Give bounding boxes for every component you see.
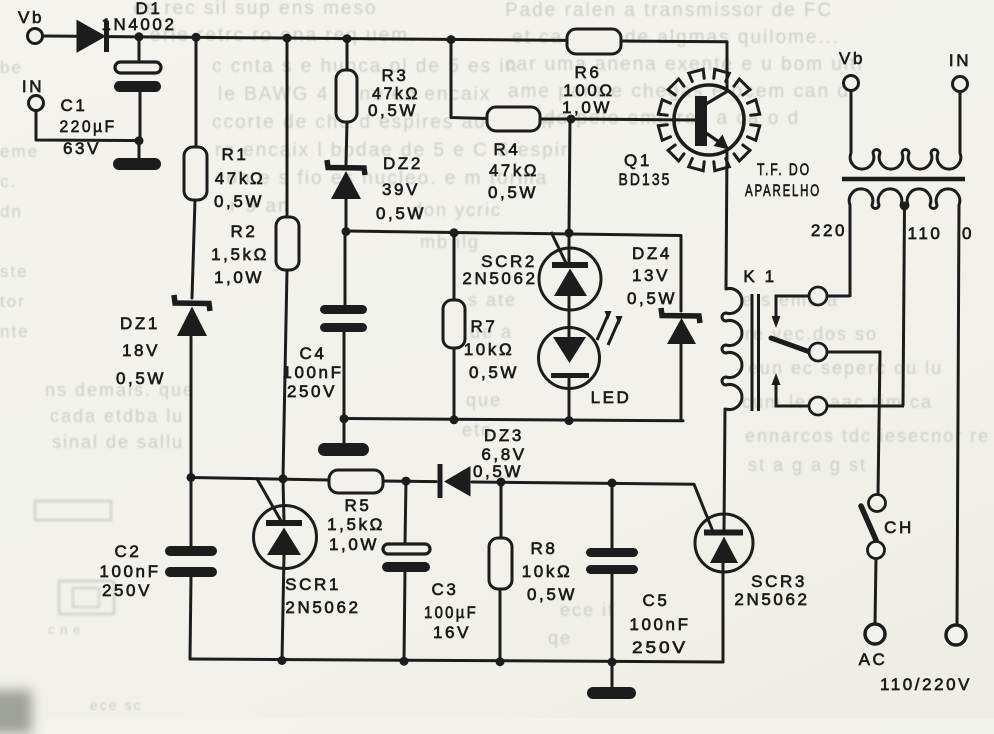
svg-text:R2: R2 bbox=[231, 222, 258, 241]
wire mid rail DZ2 to DZ4 bbox=[346, 231, 681, 311]
svg-text:SCR1: SCR1 bbox=[285, 575, 341, 594]
svg-text:R6: R6 bbox=[575, 63, 602, 82]
svg-text:R5: R5 bbox=[345, 496, 372, 515]
svg-text:DZ2: DZ2 bbox=[383, 154, 423, 173]
svg-text:1,0W: 1,0W bbox=[329, 535, 379, 554]
relay armature bbox=[771, 338, 810, 352]
svg-text:18V: 18V bbox=[122, 341, 160, 360]
svg-text:0,5W: 0,5W bbox=[376, 204, 426, 223]
svg-text:16V: 16V bbox=[433, 623, 471, 642]
wire SCR3 cathode bbox=[722, 563, 725, 662]
node C5 bottom rail / ground bbox=[608, 658, 617, 667]
wire CH to AC bbox=[875, 558, 876, 624]
wire R2 column bbox=[283, 38, 287, 521]
node SCR1 bottom rail bbox=[278, 656, 287, 665]
svg-text:47kΩ: 47kΩ bbox=[489, 161, 539, 180]
svg-text:250V: 250V bbox=[287, 382, 337, 401]
svg-text:0,5W: 0,5W bbox=[473, 462, 523, 481]
wire gate rail left segment bbox=[191, 478, 329, 481]
svg-text:10kΩ: 10kΩ bbox=[464, 340, 515, 359]
zener DZ2 bbox=[327, 160, 365, 199]
node C1 top bbox=[135, 32, 144, 41]
node SCR2 anode bbox=[565, 229, 574, 238]
wire C5 column bbox=[611, 483, 614, 688]
svg-text:C2: C2 bbox=[115, 542, 142, 561]
svg-text:Q1: Q1 bbox=[624, 151, 652, 170]
resistor R7 bbox=[443, 300, 465, 348]
node SCR1 anode bbox=[279, 474, 288, 483]
svg-text:T.F. DO: T.F. DO bbox=[757, 160, 811, 179]
svg-text:IN: IN bbox=[949, 51, 971, 70]
capacitor C4 bbox=[320, 305, 367, 332]
capacitor C5 bbox=[586, 548, 638, 574]
node DZ1 gate rail bbox=[187, 473, 196, 482]
svg-text:220: 220 bbox=[811, 221, 847, 240]
ground below C4 bbox=[318, 443, 369, 456]
wire R8 column bbox=[500, 482, 501, 661]
svg-text:R7: R7 bbox=[471, 317, 498, 336]
zener DZ3 (horizontal) bbox=[440, 464, 471, 498]
svg-text:2N5062: 2N5062 bbox=[285, 598, 360, 617]
svg-text:2N5062: 2N5062 bbox=[734, 590, 809, 609]
node C3 top bbox=[402, 477, 411, 486]
wire top rail (R6 to collector corner) bbox=[621, 41, 727, 91]
zener DZ1 bbox=[174, 295, 210, 336]
wire R7 column bbox=[453, 233, 456, 420]
wire lower box rail C4-R7-LED-DZ4 bbox=[344, 419, 683, 421]
svg-text:1,0W: 1,0W bbox=[562, 98, 612, 117]
svg-text:0,5W: 0,5W bbox=[368, 101, 418, 120]
wire C3 column bbox=[404, 481, 406, 661]
wire gate rail DZ3 to SCR3 gate bbox=[472, 482, 712, 529]
svg-text:APARELHO: APARELHO bbox=[745, 181, 821, 200]
capacitor C2 bbox=[165, 546, 217, 577]
node R7 top bbox=[450, 228, 459, 237]
svg-text:Vb: Vb bbox=[18, 8, 44, 27]
svg-text:1N4002: 1N4002 bbox=[102, 15, 177, 34]
svg-text:0,5W: 0,5W bbox=[488, 183, 538, 202]
node R8 top bbox=[497, 478, 506, 487]
relay K1 core bbox=[752, 294, 759, 411]
svg-text:110: 110 bbox=[908, 224, 943, 243]
svg-text:AC: AC bbox=[859, 650, 888, 669]
wire IN lead bbox=[36, 111, 136, 141]
wire 110 tap down bbox=[903, 208, 905, 406]
svg-text:250V: 250V bbox=[102, 581, 152, 600]
ground below C5 node bbox=[587, 687, 636, 699]
wire SCR1 cathode bbox=[282, 555, 284, 661]
terminal AC right bbox=[946, 625, 966, 645]
svg-text:IN: IN bbox=[22, 77, 44, 96]
svg-text:0,5W: 0,5W bbox=[116, 369, 166, 388]
node R1 top bbox=[192, 33, 201, 42]
svg-text:DZ3: DZ3 bbox=[484, 426, 524, 445]
resistor R1 bbox=[184, 147, 207, 200]
transformer core bbox=[842, 177, 965, 182]
svg-text:100nF: 100nF bbox=[282, 363, 343, 382]
svg-text:0: 0 bbox=[962, 224, 974, 243]
faint reverse-side figure fragments bottom-left bbox=[34, 500, 112, 521]
diode D1 bbox=[77, 21, 107, 53]
node Q1 base / R4 bbox=[567, 115, 576, 124]
svg-text:C4: C4 bbox=[300, 344, 327, 363]
resistor R3 bbox=[336, 70, 357, 122]
wire gate rail R5-DZ3 segment bbox=[383, 480, 436, 484]
wire DZ4 bottom bbox=[680, 344, 683, 421]
relay contact common (middle) bbox=[809, 343, 880, 495]
wire bottom rail bbox=[190, 659, 723, 662]
resistor R2 bbox=[276, 217, 299, 270]
svg-text:39V: 39V bbox=[382, 180, 420, 199]
svg-text:0,5W: 0,5W bbox=[627, 289, 677, 308]
resistor R6 bbox=[567, 29, 621, 54]
svg-text:1,5kΩ: 1,5kΩ bbox=[211, 245, 269, 264]
svg-text:63V: 63V bbox=[63, 139, 101, 158]
relay contact NO (bottom) bbox=[772, 373, 905, 415]
svg-text:250V: 250V bbox=[632, 638, 688, 657]
svg-text:Vb: Vb bbox=[839, 49, 865, 68]
svg-text:1,5kΩ: 1,5kΩ bbox=[327, 515, 385, 534]
wire SCR2 gate bbox=[551, 232, 566, 263]
svg-text:LED: LED bbox=[591, 388, 632, 407]
svg-text:SCR3: SCR3 bbox=[751, 572, 807, 591]
node R4 top bbox=[447, 35, 456, 44]
node C3 bottom rail bbox=[400, 657, 409, 666]
resistor R5 bbox=[329, 470, 383, 493]
wire top rail left (Vb to D1) bbox=[43, 35, 77, 38]
svg-text:100nF: 100nF bbox=[99, 562, 160, 581]
wire C2 column bbox=[190, 478, 191, 660]
node C4 bottom bbox=[340, 414, 349, 423]
switch CH bbox=[861, 495, 886, 625]
transistor Q1 bbox=[674, 85, 744, 155]
node C5 top bbox=[608, 479, 617, 488]
LED light arrows bbox=[597, 315, 619, 345]
capacitor C3 bbox=[382, 544, 430, 572]
node transformer 110 tap bbox=[900, 202, 909, 211]
svg-text:100µF: 100µF bbox=[424, 603, 478, 622]
wire SCR2-LED column bbox=[568, 233, 571, 421]
svg-text:CH: CH bbox=[884, 518, 914, 537]
wire R1/DZ1 column bbox=[191, 37, 196, 477]
svg-text:K 1: K 1 bbox=[743, 267, 776, 286]
svg-text:0,5W: 0,5W bbox=[469, 363, 519, 382]
SCR2 bbox=[539, 232, 601, 310]
terminal Vb right bbox=[844, 76, 859, 91]
svg-text:10kΩ: 10kΩ bbox=[522, 562, 573, 581]
svg-text:0,5W: 0,5W bbox=[527, 585, 577, 604]
svg-text:R8: R8 bbox=[531, 539, 558, 558]
SCR3 bbox=[695, 514, 753, 572]
node LED cathode bbox=[565, 416, 574, 425]
Q1 heatsink fins bbox=[658, 69, 759, 170]
svg-text:DZ4: DZ4 bbox=[632, 244, 672, 263]
wire R4 branch bbox=[451, 40, 571, 119]
wire Q1 base bbox=[571, 119, 695, 120]
wire top rail (D1 to R6) bbox=[110, 37, 567, 41]
svg-text:100nF: 100nF bbox=[629, 615, 690, 634]
SCR1 bbox=[254, 506, 317, 569]
transformer secondary winding bbox=[850, 91, 961, 169]
wire SCR2 anode branch bbox=[569, 119, 570, 232]
capacitor C1 bbox=[114, 62, 161, 92]
svg-text:DZ1: DZ1 bbox=[120, 314, 160, 333]
node R2 top bbox=[283, 34, 292, 43]
svg-text:47kΩ: 47kΩ bbox=[215, 169, 266, 188]
wire C1 column bbox=[139, 37, 140, 158]
svg-text:110/220V: 110/220V bbox=[880, 675, 972, 694]
node R8 bottom rail bbox=[496, 657, 505, 666]
svg-text:C5: C5 bbox=[643, 591, 670, 610]
wire R3/DZ2/C4 column bbox=[344, 39, 347, 444]
svg-text:C1: C1 bbox=[61, 96, 88, 115]
resistor R4 bbox=[487, 107, 540, 131]
relay contact NC (top) bbox=[772, 287, 828, 328]
node R3 top bbox=[343, 34, 352, 43]
svg-text:13V: 13V bbox=[632, 266, 670, 285]
wire relay coil to SCR3 anode bbox=[724, 409, 725, 531]
resistor R8 bbox=[489, 538, 512, 589]
svg-text:R3: R3 bbox=[382, 66, 409, 85]
relay K1 coil bbox=[722, 289, 742, 410]
svg-text:R1: R1 bbox=[222, 145, 249, 164]
LED bbox=[539, 311, 623, 389]
node DZ2 mid rail bbox=[342, 227, 351, 236]
svg-text:220µF: 220µF bbox=[60, 117, 117, 136]
transformer primary winding bbox=[849, 189, 960, 625]
terminal AC left bbox=[865, 624, 885, 644]
zener DZ4 bbox=[661, 308, 700, 344]
terminal IN right bbox=[953, 77, 968, 92]
svg-text:BD135: BD135 bbox=[619, 170, 672, 189]
svg-text:2N5062: 2N5062 bbox=[462, 269, 537, 288]
wire SCR1 gate bbox=[257, 479, 281, 521]
terminal IN left bbox=[29, 96, 44, 111]
node C1 bottom / IN junction bbox=[135, 136, 144, 145]
svg-text:R4: R4 bbox=[494, 140, 521, 159]
node R7 bottom bbox=[450, 415, 459, 424]
ground below C1 bbox=[113, 158, 161, 170]
svg-text:0,5W: 0,5W bbox=[214, 192, 264, 211]
wire Q1 emitter to relay coil bbox=[726, 148, 727, 289]
faint show-through background text bbox=[133, 0, 378, 20]
wire 220 tap to top contact bbox=[827, 295, 850, 298]
svg-text:C3: C3 bbox=[432, 580, 459, 599]
svg-text:1,0W: 1,0W bbox=[214, 268, 264, 287]
terminal Vb left bbox=[28, 29, 43, 44]
